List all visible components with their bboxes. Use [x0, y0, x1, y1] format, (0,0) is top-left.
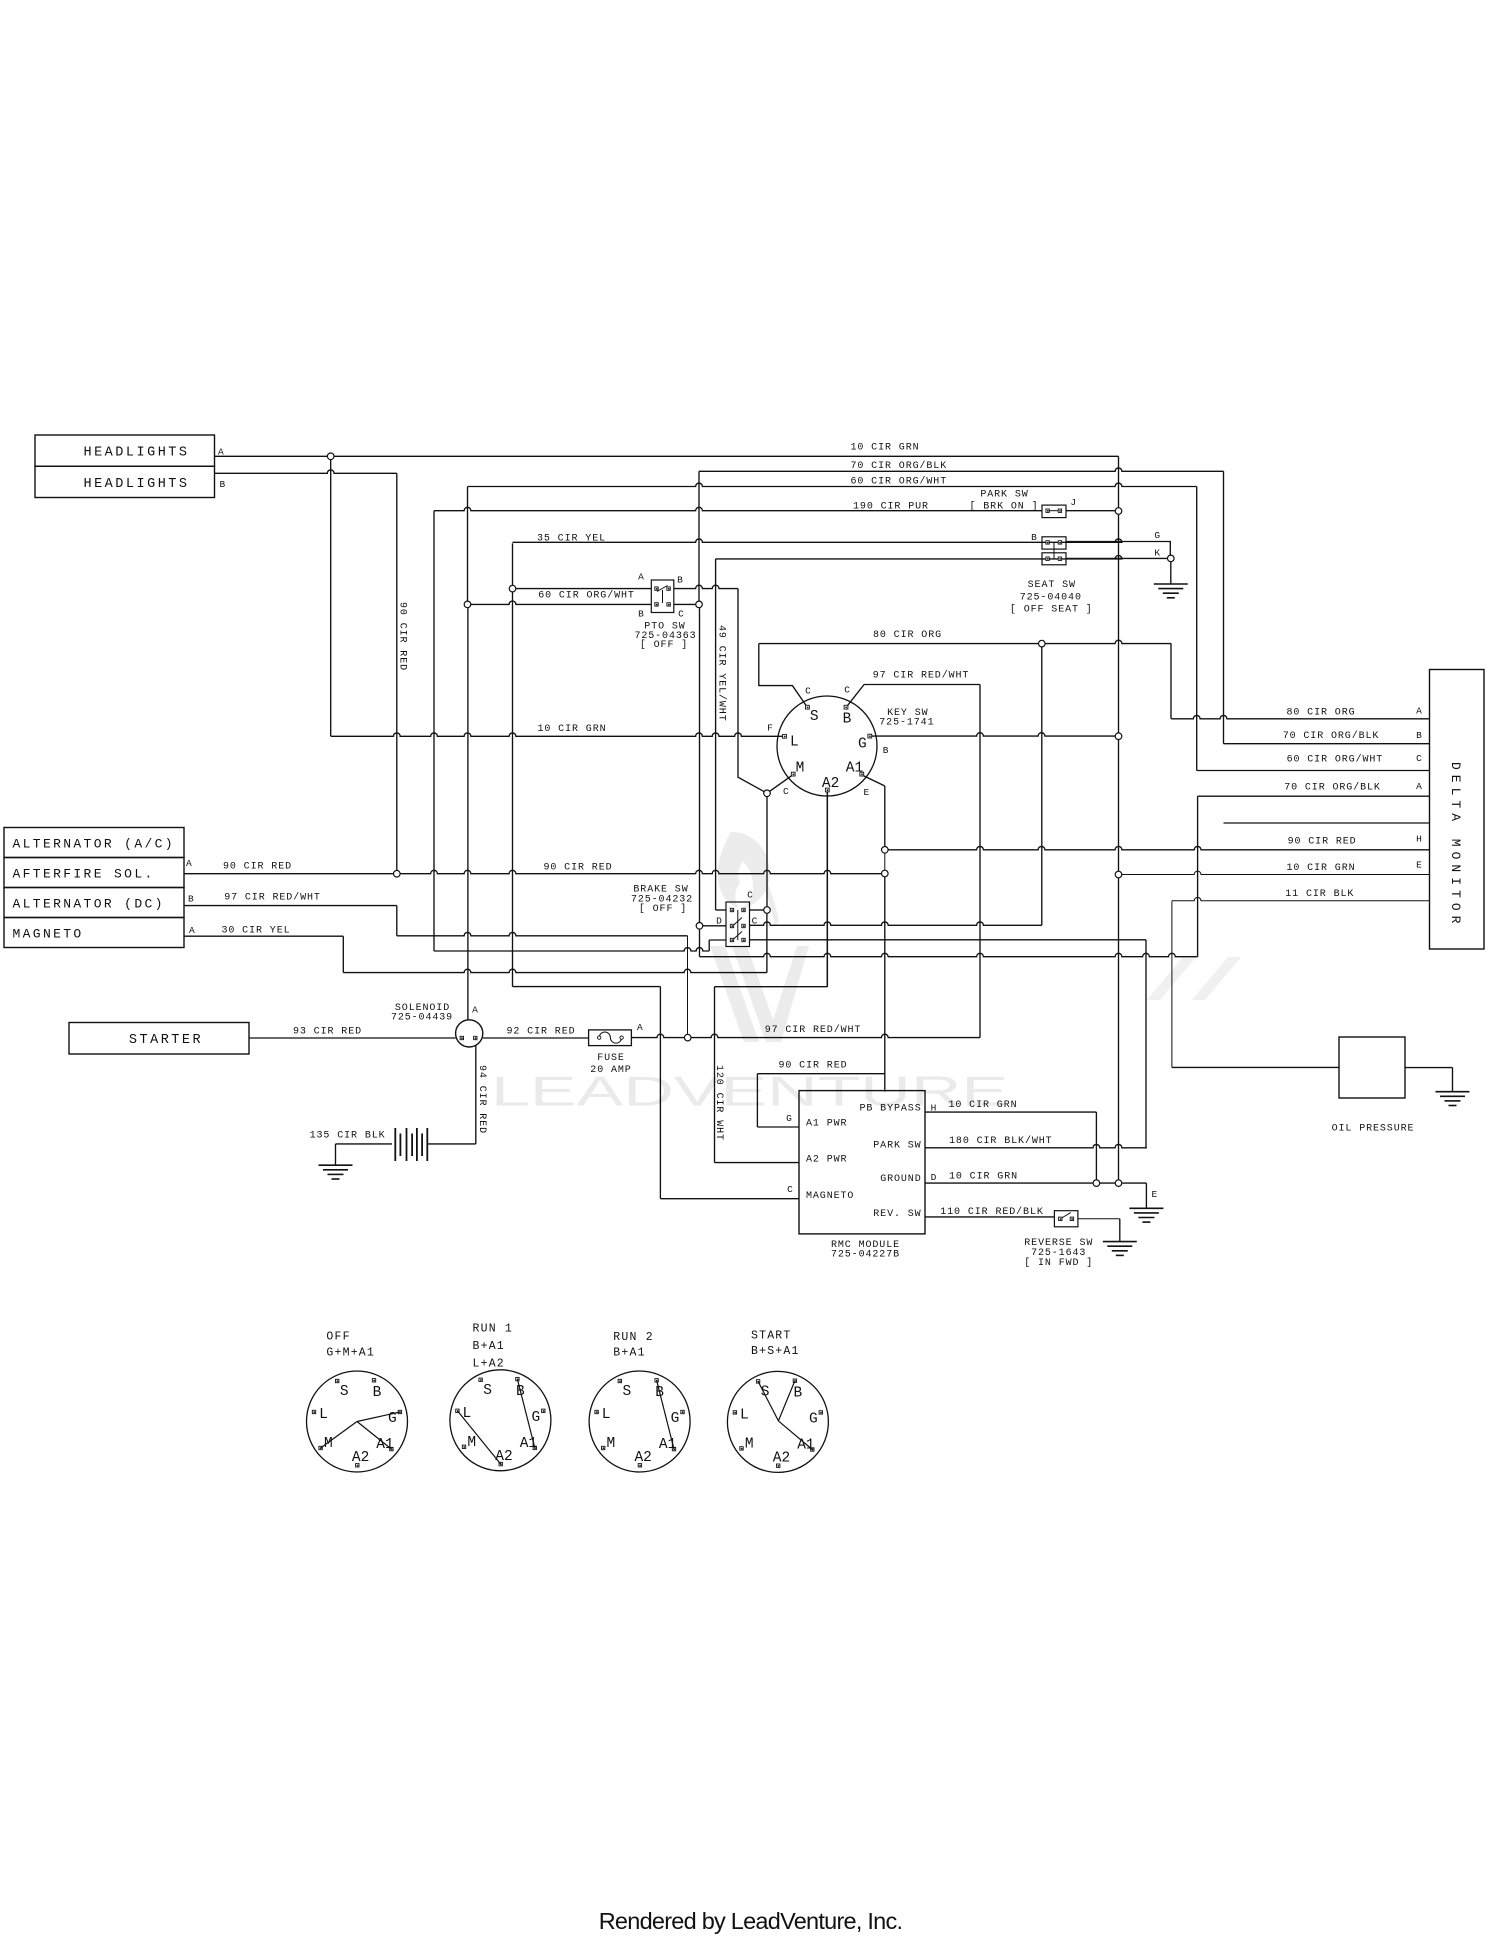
svg-text:STARTER: STARTER [129, 1033, 203, 1048]
svg-text:AFTERFIRE SOL.: AFTERFIRE SOL. [13, 866, 155, 881]
svg-text:H: H [1416, 834, 1422, 845]
svg-text:A: A [1416, 781, 1422, 792]
svg-text:10 CIR GRN: 10 CIR GRN [948, 1100, 1017, 1111]
svg-text:B+A1: B+A1 [613, 1346, 645, 1359]
svg-text:L: L [790, 735, 799, 751]
svg-text:REV. SW: REV. SW [873, 1209, 921, 1220]
svg-text:PARK SW: PARK SW [873, 1141, 921, 1152]
svg-text:E: E [1416, 859, 1422, 870]
svg-text:C: C [805, 686, 811, 697]
svg-text:G: G [858, 736, 867, 752]
svg-text:A: A [1416, 705, 1422, 716]
svg-text:C: C [752, 915, 758, 926]
svg-text:B: B [1416, 730, 1422, 741]
svg-text:B: B [188, 893, 194, 904]
svg-text:A: A [637, 1022, 643, 1033]
svg-text:OFF: OFF [326, 1330, 350, 1343]
svg-text:SEAT SW: SEAT SW [1028, 580, 1076, 591]
svg-text:B: B [794, 1385, 803, 1401]
svg-text:725-04439: 725-04439 [391, 1013, 453, 1024]
svg-text:A2: A2 [634, 1450, 651, 1466]
svg-text:80 CIR ORG: 80 CIR ORG [873, 630, 942, 641]
svg-text:110 CIR RED/BLK: 110 CIR RED/BLK [940, 1206, 1044, 1218]
svg-text:B: B [677, 574, 683, 585]
svg-text:E: E [1151, 1189, 1157, 1200]
svg-text:M: M [796, 761, 805, 777]
svg-text:725-1741: 725-1741 [879, 717, 934, 728]
svg-text:M: M [467, 1435, 476, 1451]
svg-text:93 CIR RED: 93 CIR RED [293, 1027, 362, 1038]
svg-text:MAGNETO: MAGNETO [13, 926, 84, 941]
svg-text:D: D [931, 1172, 937, 1183]
svg-text:10 CIR GRN: 10 CIR GRN [537, 724, 606, 735]
svg-text:L+A2: L+A2 [473, 1358, 505, 1371]
svg-text:H: H [931, 1102, 937, 1113]
svg-text:725-04227B: 725-04227B [831, 1250, 900, 1261]
svg-text:A: A [638, 571, 644, 582]
svg-text:ALTERNATOR (DC): ALTERNATOR (DC) [13, 896, 165, 911]
svg-text:90 CIR RED: 90 CIR RED [543, 863, 612, 874]
svg-text:GROUND: GROUND [880, 1174, 921, 1185]
svg-text:S: S [483, 1383, 492, 1399]
svg-text:60 CIR ORG/WHT: 60 CIR ORG/WHT [850, 476, 947, 488]
svg-text:11 CIR BLK: 11 CIR BLK [1285, 889, 1354, 900]
svg-text:D: D [716, 915, 722, 926]
svg-text:[ OFF ]: [ OFF ] [640, 639, 688, 651]
svg-text:10 CIR GRN: 10 CIR GRN [850, 442, 919, 453]
svg-text:A: A [218, 447, 224, 458]
svg-text:A1: A1 [797, 1437, 814, 1453]
svg-text:70 CIR ORG/BLK: 70 CIR ORG/BLK [850, 460, 947, 472]
svg-text:S: S [810, 709, 819, 725]
svg-text:L: L [740, 1408, 749, 1424]
svg-text:B: B [1031, 532, 1037, 543]
svg-text:10 CIR GRN: 10 CIR GRN [949, 1172, 1018, 1183]
svg-text:B: B [638, 608, 644, 619]
svg-text:G: G [671, 1411, 680, 1427]
svg-text:A1: A1 [520, 1436, 537, 1452]
svg-text:G+M+A1: G+M+A1 [326, 1346, 375, 1359]
svg-text:S: S [761, 1385, 770, 1401]
svg-text:80 CIR ORG: 80 CIR ORG [1286, 708, 1355, 719]
svg-text:ALTERNATOR (A/C): ALTERNATOR (A/C) [13, 836, 175, 851]
svg-text:S: S [340, 1384, 349, 1400]
svg-text:[ OFF ]: [ OFF ] [639, 903, 687, 915]
svg-text:90 CIR RED: 90 CIR RED [397, 602, 408, 671]
svg-text:A: A [189, 925, 195, 936]
svg-text:97 CIR RED/WHT: 97 CIR RED/WHT [873, 670, 970, 682]
svg-text:A2: A2 [822, 776, 839, 792]
svg-text:G: G [809, 1412, 818, 1428]
svg-text:10 CIR GRN: 10 CIR GRN [1286, 863, 1355, 874]
svg-text:35 CIR YEL: 35 CIR YEL [537, 533, 606, 544]
svg-text:M: M [607, 1436, 616, 1452]
svg-text:30 CIR YEL: 30 CIR YEL [221, 926, 290, 937]
svg-text:120 CIR WHT: 120 CIR WHT [713, 1065, 724, 1141]
svg-text:90 CIR RED: 90 CIR RED [778, 1061, 847, 1072]
svg-text:A1 PWR: A1 PWR [806, 1118, 847, 1129]
svg-text:90 CIR RED: 90 CIR RED [1288, 836, 1357, 847]
svg-text:PARK SW: PARK SW [980, 489, 1028, 500]
svg-text:A2: A2 [495, 1449, 512, 1465]
svg-text:C: C [844, 685, 850, 696]
svg-text:[ OFF SEAT ]: [ OFF SEAT ] [1010, 604, 1093, 616]
svg-text:C: C [783, 786, 789, 797]
svg-text:92 CIR RED: 92 CIR RED [506, 1027, 575, 1038]
svg-text:A1: A1 [659, 1437, 676, 1453]
svg-text:PB BYPASS: PB BYPASS [859, 1104, 921, 1115]
svg-text:70 CIR ORG/BLK: 70 CIR ORG/BLK [1283, 730, 1380, 742]
svg-text:60 CIR ORG/WHT: 60 CIR ORG/WHT [1287, 753, 1384, 765]
svg-text:F: F [767, 723, 773, 734]
svg-text:725-04040: 725-04040 [1020, 593, 1082, 604]
svg-text:RUN 1: RUN 1 [473, 1323, 514, 1336]
svg-text:HEADLIGHTS: HEADLIGHTS [83, 477, 189, 492]
svg-text:20 AMP: 20 AMP [590, 1065, 631, 1076]
svg-text:S: S [622, 1384, 631, 1400]
svg-text:A2 PWR: A2 PWR [806, 1155, 847, 1166]
svg-text:97 CIR RED/WHT: 97 CIR RED/WHT [224, 892, 321, 904]
svg-text:135 CIR BLK: 135 CIR BLK [310, 1130, 386, 1141]
svg-text:FUSE: FUSE [597, 1053, 625, 1064]
svg-text:B: B [220, 479, 226, 490]
svg-text:DELTA MONITOR: DELTA MONITOR [1448, 762, 1463, 928]
svg-text:C: C [747, 889, 753, 900]
svg-text:G: G [1154, 530, 1160, 541]
svg-text:A2: A2 [773, 1451, 790, 1467]
svg-text:C: C [678, 608, 684, 619]
svg-text:MAGNETO: MAGNETO [806, 1191, 854, 1202]
svg-text:START: START [751, 1330, 792, 1343]
svg-text:49 CIR YEL/WHT: 49 CIR YEL/WHT [716, 625, 728, 722]
svg-text:190 CIR PUR: 190 CIR PUR [853, 502, 929, 513]
svg-text:B+S+A1: B+S+A1 [751, 1345, 800, 1358]
svg-text:B: B [843, 711, 852, 727]
svg-text:J: J [1070, 497, 1076, 508]
svg-text:E: E [864, 787, 870, 798]
svg-text:HEADLIGHTS: HEADLIGHTS [83, 446, 189, 461]
svg-text:K: K [1154, 547, 1160, 558]
svg-text:RUN 2: RUN 2 [613, 1331, 654, 1344]
svg-text:A: A [186, 858, 192, 869]
svg-text:60 CIR ORG/WHT: 60 CIR ORG/WHT [538, 590, 635, 602]
svg-text:94 CIR RED: 94 CIR RED [476, 1065, 487, 1134]
svg-text:A2: A2 [352, 1450, 369, 1466]
svg-text:C: C [787, 1184, 793, 1195]
svg-text:A1: A1 [846, 761, 863, 777]
svg-text:C: C [1416, 753, 1422, 764]
svg-text:A: A [472, 1004, 478, 1015]
svg-text:G: G [531, 1410, 540, 1426]
svg-text:70 CIR ORG/BLK: 70 CIR ORG/BLK [1284, 782, 1381, 794]
svg-text:L: L [319, 1407, 328, 1423]
svg-text:B: B [373, 1385, 382, 1401]
svg-text:M: M [745, 1436, 754, 1452]
svg-text:B+A1: B+A1 [473, 1340, 505, 1353]
svg-text:G: G [786, 1113, 792, 1124]
svg-text:180 CIR BLK/WHT: 180 CIR BLK/WHT [949, 1135, 1053, 1147]
svg-text:B: B [883, 745, 889, 756]
svg-text:OIL PRESSURE: OIL PRESSURE [1332, 1124, 1415, 1135]
svg-text:Rendered by LeadVenture, Inc.: Rendered by LeadVenture, Inc. [599, 1908, 903, 1934]
svg-text:L: L [602, 1407, 611, 1423]
svg-text:[ BRK ON ]: [ BRK ON ] [969, 501, 1038, 513]
svg-text:90 CIR RED: 90 CIR RED [223, 862, 292, 873]
svg-text:[ IN FWD ]: [ IN FWD ] [1024, 1257, 1093, 1269]
svg-text:97 CIR RED/WHT: 97 CIR RED/WHT [765, 1024, 862, 1036]
